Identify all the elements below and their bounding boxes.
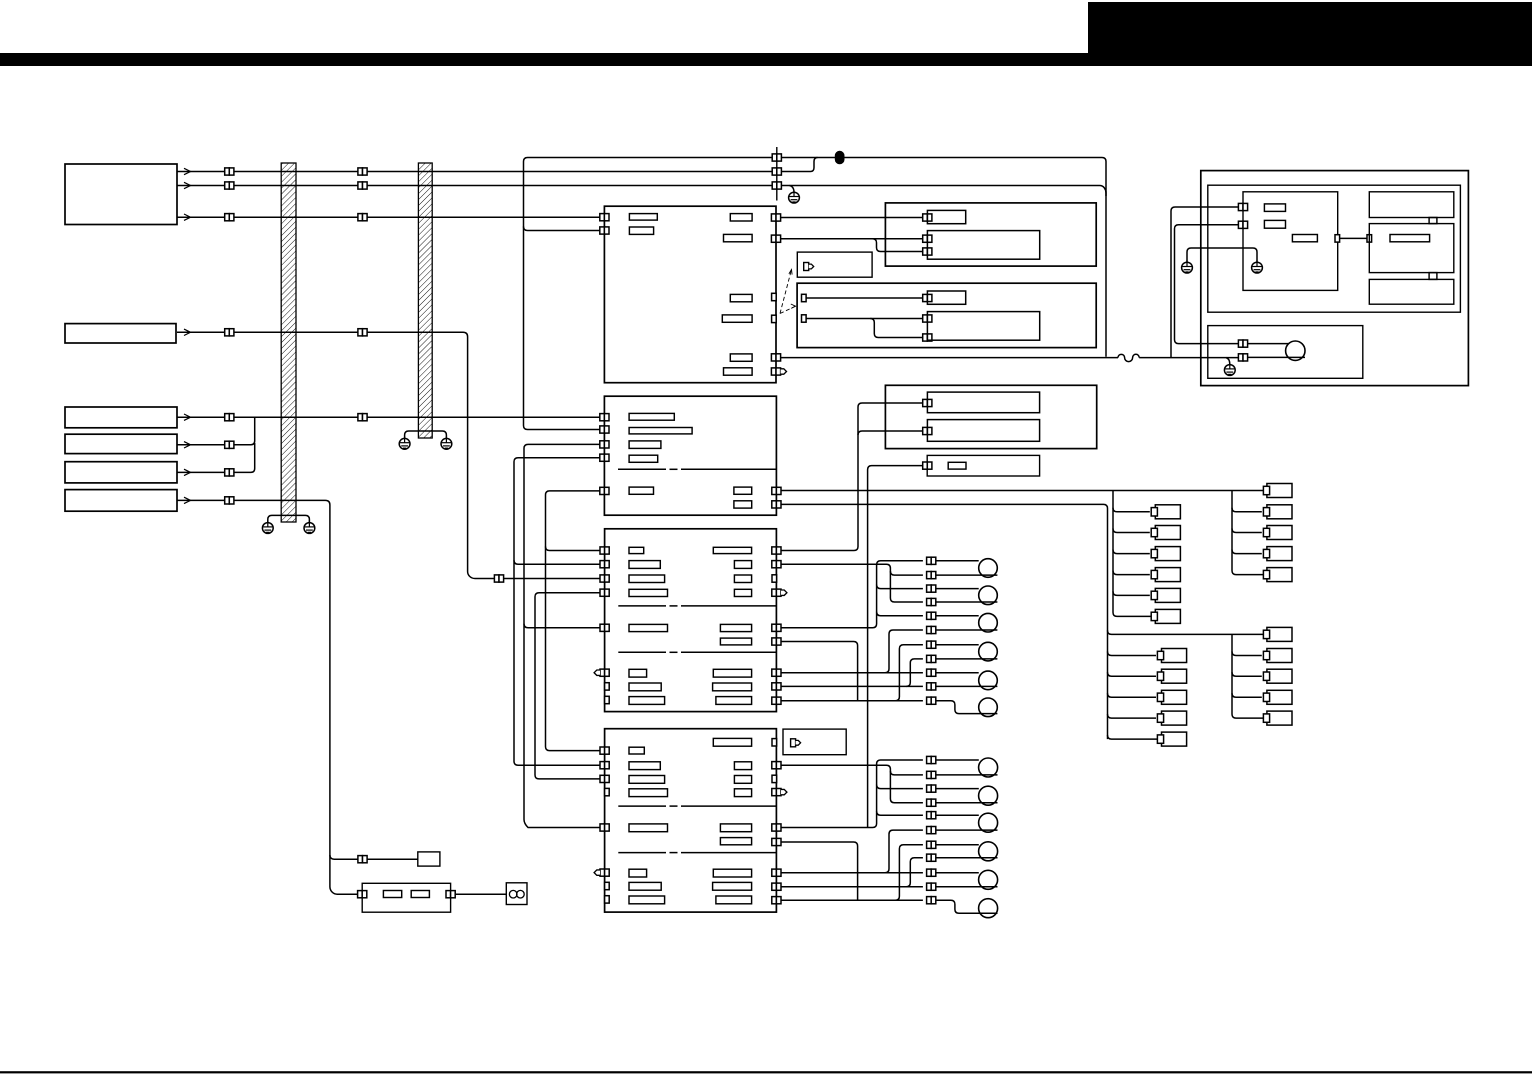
horn coil left: [509, 890, 517, 898]
wire Gr7 branch row6: [885, 830, 923, 873]
unit D1a pin2: [1238, 221, 1247, 228]
lamp F1: [979, 559, 998, 578]
ground G-H1L: [262, 521, 273, 534]
connector G-row5: [927, 812, 936, 819]
connector F-row8: [927, 655, 936, 662]
unit G slot R7: [713, 869, 751, 877]
terminal T1L-3: [1155, 547, 1180, 561]
unit E pin R1: [772, 487, 781, 494]
unit D bridge pin top: [1429, 218, 1437, 224]
unit D1d box: [1369, 279, 1454, 304]
unit F slot L1: [629, 547, 644, 553]
unit F slot R3: [734, 575, 751, 583]
unit G pin R1 half: [772, 739, 777, 746]
wire unit A left pin2 tap: [524, 227, 601, 231]
wire G lamp3 bottom: [936, 829, 998, 831]
wire row11 branch row7: [895, 645, 923, 701]
wire C3 a: [806, 297, 923, 299]
unit A slot R6: [724, 368, 753, 375]
connector F-row2: [927, 572, 936, 579]
unit F slot L5: [629, 624, 668, 631]
unit E pin L1: [600, 414, 609, 421]
unit F slot L3: [629, 575, 665, 583]
wire tree1 left bus: [1113, 491, 1151, 617]
wire B1 feed b: [177, 186, 1106, 197]
connector F-row6: [927, 626, 936, 633]
wire F lamp3 bottom: [936, 629, 998, 631]
terminal T1R-2: [1267, 505, 1292, 519]
connector C2-2: [358, 329, 367, 336]
terminal T1R-1: [1267, 484, 1292, 498]
unit G slot L3: [629, 776, 665, 784]
unit D1b box: [1369, 224, 1454, 273]
harness bar H2: [418, 163, 432, 438]
unit G pin L1: [600, 747, 609, 754]
wire tree2 right bus: [1232, 634, 1264, 718]
unit G pin L7 half: [605, 882, 610, 889]
junction J2 pin left: [358, 891, 367, 898]
unit A pin L2: [600, 227, 609, 234]
unit E pin L2: [600, 426, 609, 433]
terminal T2R-1: [1267, 627, 1292, 641]
unit C conn1: [923, 214, 932, 221]
lamp F4: [979, 642, 998, 661]
junction box J2: [362, 883, 450, 912]
connector C6-2 inline: [358, 856, 367, 863]
unit K conn2: [923, 427, 932, 434]
wire E-R2 main: [781, 504, 1108, 739]
terminal T2L-4: [1162, 711, 1187, 725]
connector C6-1: [225, 497, 234, 504]
connector C1b-2: [358, 182, 367, 189]
terminal T1L-6: [1155, 609, 1180, 623]
junction J2 slot2: [411, 891, 429, 898]
wire Fg5 bus: [781, 561, 923, 628]
terminal T1L-1: [1155, 505, 1180, 519]
unit F slot L6: [629, 669, 647, 677]
unit F pin R5: [772, 624, 781, 631]
unit G pin R8: [772, 883, 781, 890]
wire B1 feed a: [177, 171, 811, 173]
junction J2 pin right: [446, 891, 455, 898]
terminal T1R-5: [1267, 568, 1292, 582]
unit F divider 1: [618, 605, 666, 607]
wire Gr9 row11: [781, 899, 923, 901]
unit G slot R5: [720, 824, 751, 832]
wire F lamp5 top: [936, 672, 979, 674]
junction J2 slot1: [383, 891, 401, 898]
unit G slot L2: [629, 762, 660, 770]
connector G-row8: [927, 854, 936, 861]
unit G slot L5: [629, 824, 668, 832]
connector box F1: [797, 252, 872, 277]
unit E slot1: [629, 413, 674, 420]
unit F box: [605, 529, 777, 712]
unit G slot L1: [629, 747, 644, 754]
unit E pin L3: [600, 441, 609, 448]
unit C conn3: [923, 248, 932, 255]
wire G lamp5 top: [936, 872, 979, 874]
footer rule: [0, 1071, 1532, 1073]
wire F lamp4 bottom: [936, 658, 998, 660]
unit A pin L1: [600, 214, 609, 221]
wire Gr2 bus: [781, 765, 923, 803]
wire E5-F1-G1: [546, 491, 601, 751]
wire F lamp5 bottom: [936, 685, 998, 687]
wire F lamp1 top: [936, 560, 979, 562]
ground G-H2R: [441, 436, 452, 449]
arrow B2: [184, 329, 191, 335]
unit A slot R5: [730, 354, 752, 361]
unit G pin L2: [600, 762, 609, 769]
unit D outer box: [1201, 171, 1469, 386]
unit E divider: [618, 468, 666, 470]
unit G pin R3 half: [772, 775, 777, 782]
unit F pin R1: [772, 547, 781, 554]
wire row11 branch row7: [895, 845, 923, 900]
horn box J3: [506, 883, 527, 905]
unit E slot3: [629, 441, 661, 449]
connector G-row2: [927, 771, 936, 778]
ground G-rail: [789, 190, 800, 203]
ground G-H1R: [304, 521, 315, 534]
wire G lamp5 bottom: [936, 886, 998, 888]
unit F pin L3: [600, 575, 609, 582]
relay box J1: [418, 852, 440, 866]
wire G lamp1 bottom: [936, 774, 998, 776]
unit G divider 2: [618, 852, 666, 854]
unit A pin R5: [771, 354, 780, 361]
connector C1b-1: [225, 182, 234, 189]
unit A pin R6 flag: [771, 368, 786, 375]
connector rail-1: [772, 154, 781, 161]
unit F slot R8: [713, 683, 752, 691]
ground G-D-left: [1182, 260, 1193, 273]
unit D1a box: [1243, 192, 1338, 291]
arrow B1b: [184, 182, 191, 188]
wire Gr7 row9: [781, 872, 923, 874]
wire B5 join: [177, 443, 255, 472]
antenna motor M: [1286, 341, 1305, 360]
lamp F5: [979, 671, 998, 690]
unit G pin R6: [772, 838, 781, 845]
wire D2 pin1 to motor: [1248, 343, 1289, 345]
lamp G3: [979, 813, 998, 832]
lamp G1: [979, 758, 998, 777]
wire B1a merge into bus: [811, 158, 818, 172]
fuse capsule: [835, 151, 845, 165]
terminal T2R-2: [1267, 649, 1292, 663]
connector C1c-2: [358, 214, 367, 221]
flag pin H: [791, 739, 801, 747]
wire B3 to E pin1: [177, 416, 601, 418]
connector G-row6: [927, 827, 936, 834]
wire riser to D1a pin1: [1171, 207, 1239, 358]
wire Gr8 branch row8: [906, 858, 923, 887]
lamp G6: [979, 899, 998, 918]
unit G divider 1: [618, 805, 666, 807]
unit A box: [604, 206, 776, 383]
source box B3: [65, 407, 177, 428]
unit L box: [927, 455, 1039, 476]
flag pin F1: [804, 263, 814, 271]
unit C3 conn3: [923, 334, 932, 341]
unit E slot R2: [734, 501, 752, 508]
unit F pin R4 flag: [772, 589, 787, 596]
wire B6 down to junction boxes: [177, 500, 358, 894]
terminal T1L-4: [1155, 568, 1180, 582]
wire F lamp2 bottom: [936, 601, 998, 603]
ground stub at rail: [790, 186, 795, 193]
connector F-row5: [927, 612, 936, 619]
unit D1b pin left: [1367, 235, 1372, 242]
unit D2 pin2: [1238, 354, 1247, 361]
arrow B4: [184, 442, 191, 448]
unit F pin L1: [600, 547, 609, 554]
unit D1 box: [1208, 185, 1461, 312]
wire J2 to horn: [455, 893, 506, 895]
unit F divider 2: [618, 651, 666, 653]
unit G pin L8 half: [605, 896, 610, 903]
unit A slot R2: [724, 234, 753, 241]
unit C box: [885, 203, 1096, 266]
wire B4 join: [177, 417, 255, 445]
unit E slot5: [629, 487, 653, 494]
connector C2-1: [225, 329, 234, 336]
unit C slot2: [927, 231, 1039, 260]
wire F lamp3 top: [936, 615, 979, 617]
connector F-row9: [927, 669, 936, 676]
wire C3 b branch: [870, 319, 923, 338]
wire tree2 left bus: [1108, 735, 1158, 739]
terminal T2R-4: [1267, 690, 1292, 704]
wire G lamp2 bottom: [936, 802, 998, 804]
unit C3 conn1: [923, 294, 932, 301]
wire Fg7 row9: [781, 672, 923, 674]
connector rail-2: [772, 168, 781, 175]
lamp G2: [979, 786, 998, 805]
ground stub D2: [1226, 358, 1230, 365]
unit F pin R8: [772, 683, 781, 690]
wire L down to G cluster: [868, 466, 923, 828]
wire K2 branch: [858, 431, 923, 435]
unit G slot L4: [629, 789, 668, 797]
connector C2-3 inline: [494, 575, 503, 582]
connector G-row1: [927, 756, 936, 763]
unit D1a slot2: [1264, 220, 1285, 228]
arrow B6: [184, 497, 191, 503]
lamp F3: [979, 613, 998, 632]
unit A slot R1: [730, 214, 752, 221]
unit L slot: [948, 462, 966, 469]
wire F lamp4 top: [936, 644, 979, 646]
arrow B1a: [184, 168, 191, 174]
lamp G5: [979, 870, 998, 889]
wire Gr6 to rail: [781, 842, 858, 900]
connector G-row10: [927, 883, 936, 890]
unit F slot R6: [720, 638, 751, 645]
wire Fg8 branch row8: [906, 659, 923, 687]
wire G lamp4 bottom: [936, 857, 998, 859]
unit F pin R7: [772, 669, 781, 676]
unit D bridge pin bottom: [1429, 273, 1437, 280]
wire Fg9 row11: [781, 700, 923, 702]
wire Fg7 branch row6: [885, 630, 923, 673]
unit F slot R9: [716, 697, 752, 705]
header rule bar: [0, 53, 1532, 66]
unit C3 slot1: [927, 291, 965, 304]
connector G-row4: [927, 799, 936, 806]
connector F-row4: [927, 598, 936, 605]
unit A pin R4 half: [772, 315, 777, 322]
bus vertical to unit A pin2: [524, 158, 601, 430]
unit A slot L2: [629, 227, 653, 234]
connector F-row1: [927, 557, 936, 564]
connector C1c-1: [225, 214, 234, 221]
unit G pin L3: [600, 775, 609, 782]
wire D1a to D1b: [1340, 237, 1367, 239]
terminal T1L-2: [1155, 526, 1180, 540]
unit F pin L5: [600, 624, 609, 631]
unit E pin L5: [600, 487, 609, 494]
harness bar H1: [281, 163, 296, 522]
unit G slot L8: [629, 896, 665, 904]
terminal T1L-5: [1155, 588, 1180, 602]
lamp F2: [979, 586, 998, 605]
wire G lamp3 top: [936, 814, 979, 816]
unit G slot R8: [713, 882, 752, 890]
horn coil right: [517, 890, 525, 898]
wire A-R1 to C: [781, 217, 923, 219]
unit F slot L7: [629, 683, 661, 691]
unit K box: [885, 385, 1096, 448]
wire G lamp4 top: [936, 844, 979, 846]
unit K slot1: [927, 392, 1039, 413]
unit A pin R1: [771, 214, 780, 221]
arrow B5: [184, 469, 191, 475]
unit F pin R9: [772, 697, 781, 704]
unit F slot R2: [734, 561, 751, 569]
connector F-row10: [927, 683, 936, 690]
wire Fg2 bus: [781, 564, 923, 602]
unit G slot L7: [629, 882, 661, 890]
unit A pin R3 half: [772, 293, 777, 300]
unit F slot R5: [720, 624, 751, 631]
ground G-D-right: [1252, 260, 1263, 273]
unit C conn2: [923, 235, 932, 242]
unit C3 pin a: [802, 294, 807, 301]
unit E box: [604, 396, 776, 515]
wire Gr8 row10: [781, 886, 923, 888]
wire branch to relay J1: [330, 855, 358, 859]
terminal T2R-5: [1267, 711, 1292, 725]
unit F slot L2: [629, 561, 660, 569]
connector C1a-2: [358, 168, 367, 175]
wire D2 pin2 under motor: [1248, 356, 1305, 358]
source box B4: [65, 434, 177, 453]
unit F slot L4: [629, 589, 668, 596]
unit F pin R2: [772, 561, 781, 568]
unit D ground link wire: [1187, 248, 1257, 262]
wire F lamp6 feed: [936, 701, 998, 714]
wire C3 b: [806, 318, 923, 320]
unit G slot R3: [734, 776, 751, 784]
wire tree1 right bus: [1232, 491, 1264, 575]
unit G pin L4 half: [605, 788, 610, 795]
wire E3-F5-G5: [524, 444, 601, 827]
annotation double arrow: [780, 270, 796, 314]
wire A-R2 to C: [781, 238, 923, 240]
wire F4-G3: [535, 593, 601, 779]
wire B2 to F pin3: [177, 332, 601, 578]
connector G-row9: [927, 869, 936, 876]
terminal T1R-4: [1267, 547, 1292, 561]
wire A-R2 branch: [873, 239, 923, 252]
harness rail: [776, 147, 778, 201]
unit A slot R4: [722, 315, 752, 322]
unit D1c box: [1369, 192, 1454, 218]
connector F-row11: [927, 697, 936, 704]
terminal T1R-3: [1267, 526, 1292, 540]
unit A pin R2: [771, 235, 780, 242]
wire Gr5 bus: [781, 760, 923, 828]
connector rail-3: [772, 182, 781, 189]
wire K1 down to F g1: [781, 403, 923, 551]
unit G slot R9: [716, 896, 752, 904]
unit G pin R4 flag: [772, 789, 787, 796]
unit K conn1: [923, 399, 932, 406]
ground link wire under H2: [405, 431, 447, 438]
terminal T2R-3: [1267, 669, 1292, 683]
wire E4-F2-G2: [514, 458, 601, 766]
battery box B1: [65, 164, 177, 225]
unit F pin L7 half: [605, 683, 610, 690]
unit G slot R6: [720, 838, 751, 845]
unit C3 slot2: [927, 312, 1039, 341]
unit G pin L5: [600, 824, 609, 831]
unit A slot R3: [730, 294, 752, 301]
unit F slot R4: [734, 589, 751, 596]
connector box H: [783, 729, 846, 755]
unit L conn: [923, 462, 932, 469]
antenna feed wire: [781, 357, 1118, 359]
unit E slot R1: [734, 487, 752, 494]
connector F-row7: [927, 641, 936, 648]
ground link wire under H1: [268, 515, 310, 522]
arrow B3: [184, 414, 191, 420]
unit D1a pin right: [1335, 235, 1340, 242]
unit F slot R7: [713, 669, 751, 677]
unit G pin L6 flag: [594, 869, 609, 876]
terminal T2L-2: [1162, 669, 1187, 683]
unit E pin L4: [600, 454, 609, 461]
unit C3 box: [797, 283, 1096, 347]
unit G slot R2: [734, 762, 751, 770]
wire G lamp1 top: [936, 759, 979, 761]
unit D1b slot: [1390, 235, 1430, 242]
unit D2 box: [1208, 326, 1363, 379]
unit G pin R7: [772, 869, 781, 876]
source box B2: [65, 324, 176, 343]
connector C3-2: [358, 414, 367, 421]
unit G slot L6: [629, 869, 647, 877]
unit F pin R3 half: [772, 575, 777, 582]
unit F pin L8 half: [605, 696, 610, 703]
unit F pin L2: [600, 561, 609, 568]
unit E slot4: [629, 455, 658, 462]
unit D2 pin1: [1238, 340, 1247, 347]
connector C1a-1: [225, 168, 234, 175]
